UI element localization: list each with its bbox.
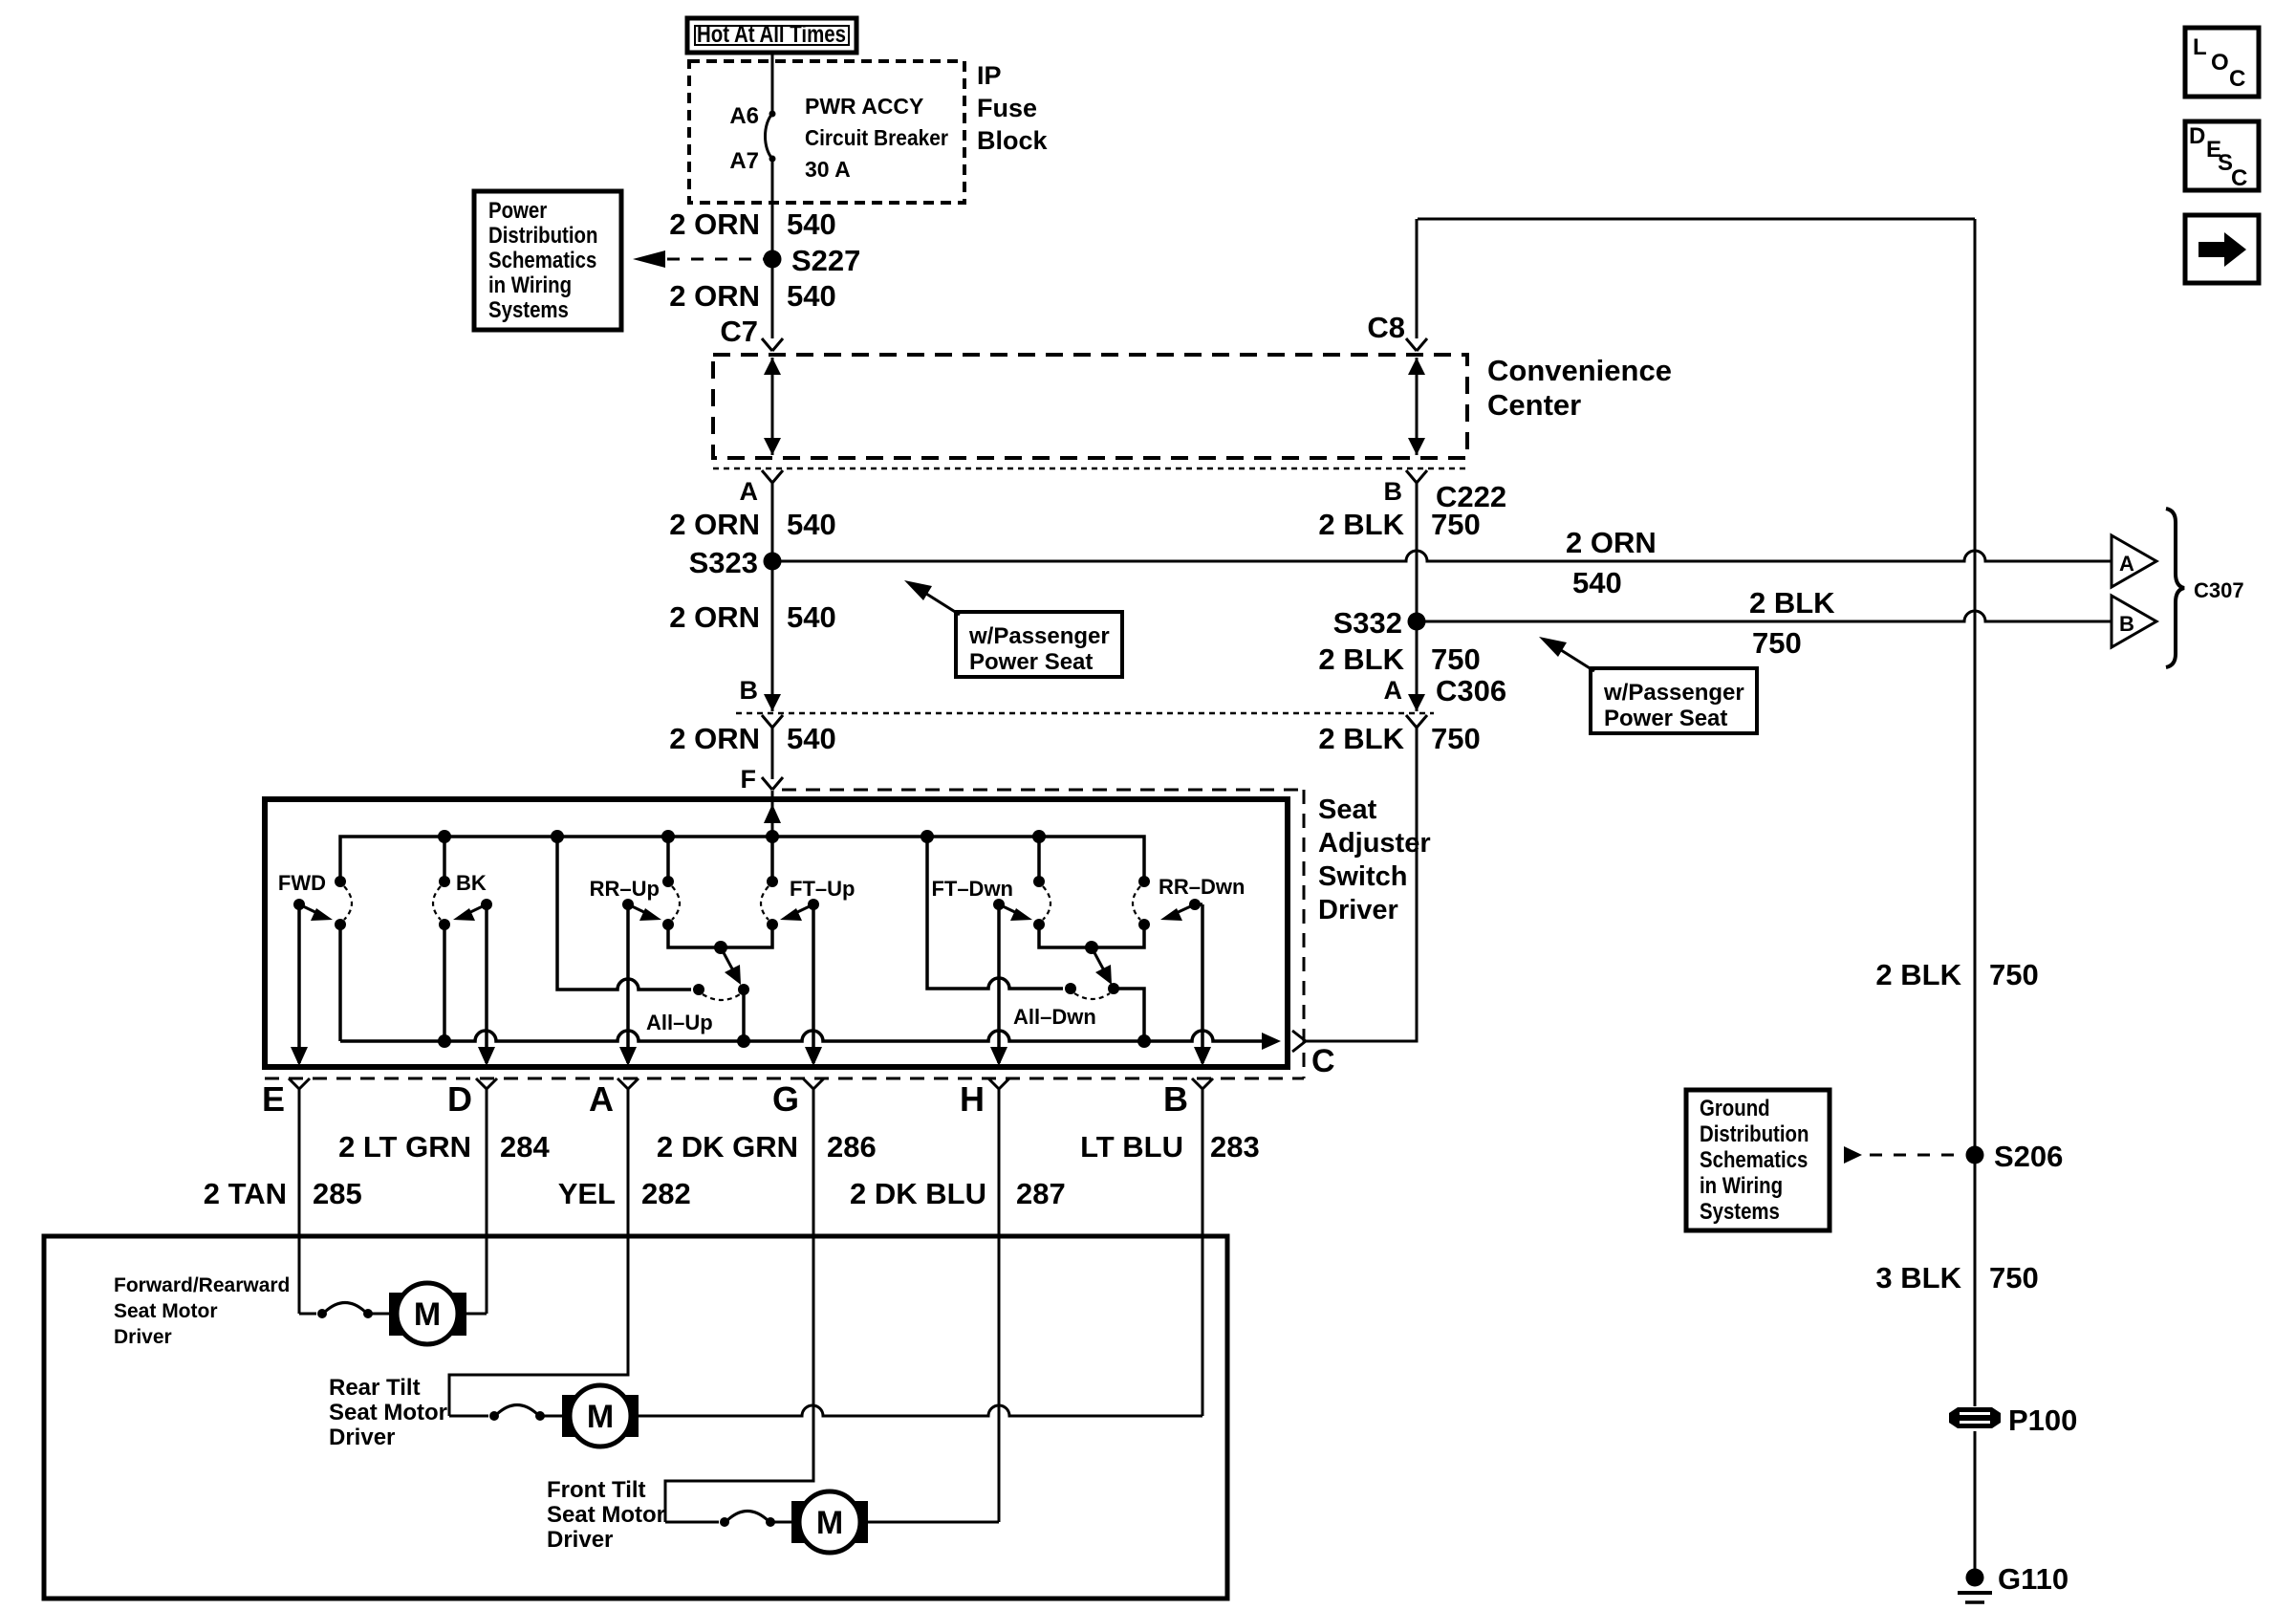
- wire label 2 BLK 750 ground: [1875, 958, 2038, 991]
- svg-text:Hot At All Times: Hot At All Times: [697, 21, 846, 48]
- arrow All-Dwn actuate: [1092, 947, 1112, 985]
- svg-text:D: D: [447, 1079, 472, 1119]
- wire inside Convenience Center right: [1408, 358, 1425, 455]
- svg-text:750: 750: [1989, 1261, 2039, 1295]
- svg-text:M: M: [414, 1296, 441, 1333]
- connector pin E: [262, 1078, 310, 1314]
- svg-text:283: 283: [1210, 1130, 1260, 1164]
- callout w/Passenger Power Seat left: [904, 580, 1122, 677]
- svg-text:Block: Block: [977, 126, 1049, 155]
- svg-text:2 DK GRN: 2 DK GRN: [657, 1130, 798, 1164]
- svg-text:A6: A6: [729, 103, 759, 129]
- svg-text:285: 285: [313, 1177, 362, 1210]
- svg-text:S227: S227: [791, 244, 860, 277]
- svg-text:M: M: [587, 1399, 614, 1435]
- wire link RR-Up FT-Up lower contacts: [668, 925, 772, 954]
- svg-text:FT–Dwn: FT–Dwn: [931, 877, 1013, 901]
- svg-text:Switch: Switch: [1318, 861, 1407, 892]
- pole wire A: [619, 904, 637, 1066]
- svg-text:540: 540: [787, 722, 836, 755]
- svg-text:FWD: FWD: [278, 871, 326, 895]
- svg-text:C307: C307: [2194, 578, 2244, 602]
- ground line vertical: [1974, 219, 1977, 1406]
- wire label 3 BLK 750: [1875, 1261, 2038, 1295]
- svg-text:Power Seat: Power Seat: [969, 649, 1093, 675]
- Rear Tilt Seat Motor Driver label: [329, 1375, 447, 1450]
- Convenience Center label: [1487, 354, 1672, 422]
- label box Power Distribution Schematics in Wiring Systems: [474, 191, 621, 330]
- svg-text:750: 750: [1431, 642, 1481, 676]
- wire inside Convenience Center left: [764, 358, 781, 455]
- svg-text:287: 287: [1016, 1177, 1066, 1210]
- switch RR-Dwn: [1133, 875, 1245, 930]
- splice S332: [1333, 606, 1426, 640]
- stub bus to FT-Up contact: [770, 837, 774, 881]
- svg-text:Systems: Systems: [1700, 1198, 1780, 1224]
- svg-text:540: 540: [787, 600, 836, 634]
- svg-text:w/Passenger: w/Passenger: [968, 623, 1110, 649]
- pole wire B: [1194, 904, 1211, 1066]
- connector C7: [720, 315, 783, 351]
- arrow All-Up actuate: [721, 947, 741, 985]
- connector C306 line: [736, 674, 1506, 728]
- wire top right from C8 to ground line: [1416, 219, 1419, 338]
- wire label 2 DK GRN 286: [657, 1130, 877, 1164]
- svg-text:Driver: Driver: [1318, 895, 1398, 925]
- splice S227: [764, 244, 861, 277]
- svg-text:2 ORN: 2 ORN: [669, 600, 760, 634]
- wire C306 down to switch C pin: [1306, 728, 1417, 1041]
- svg-text:All–Dwn: All–Dwn: [1013, 1005, 1096, 1029]
- icon box LOC: [2185, 28, 2259, 97]
- svg-text:M: M: [816, 1505, 843, 1541]
- svg-text:2 ORN: 2 ORN: [1566, 526, 1657, 559]
- svg-text:284: 284: [500, 1130, 550, 1164]
- connector F pin: [741, 765, 784, 794]
- svg-text:C: C: [2231, 165, 2247, 191]
- bottom bus with hops and C arrow: [340, 1031, 1281, 1050]
- svg-text:Front Tilt: Front Tilt: [547, 1477, 646, 1503]
- svg-text:All–Up: All–Up: [646, 1011, 713, 1034]
- svg-text:Seat Motor: Seat Motor: [114, 1300, 218, 1322]
- Convenience Center dashed box: [713, 355, 1467, 458]
- icon box DESC: [2185, 121, 2259, 191]
- wire label 2 ORN 540: [669, 722, 835, 755]
- svg-text:F: F: [741, 765, 757, 794]
- svg-text:C: C: [2229, 66, 2245, 92]
- svg-text:B: B: [2119, 612, 2134, 636]
- svg-text:Adjuster: Adjuster: [1318, 828, 1431, 859]
- switch BK: [433, 871, 492, 930]
- svg-text:Driver: Driver: [329, 1425, 395, 1450]
- svg-text:2 BLK: 2 BLK: [1318, 722, 1404, 755]
- dashed arrow to Power Distribution: [633, 250, 764, 268]
- wire right C222 to C306: [1416, 483, 1419, 711]
- svg-text:C8: C8: [1367, 311, 1405, 344]
- pole wire H: [990, 904, 1007, 1066]
- wire S332 to C307 B: [1417, 611, 2112, 621]
- IP Fuse Block label: [977, 61, 1049, 155]
- svg-text:D: D: [2189, 123, 2205, 149]
- grommet P100: [1949, 1403, 2077, 1437]
- svg-text:C7: C7: [720, 315, 758, 348]
- svg-text:Forward/Rearward: Forward/Rearward: [114, 1274, 290, 1296]
- top bus: [340, 837, 1144, 881]
- triangle connector C307 A: [2112, 535, 2156, 587]
- svg-text:YEL: YEL: [558, 1177, 616, 1210]
- svg-text:282: 282: [641, 1177, 691, 1210]
- svg-text:Schematics: Schematics: [1700, 1146, 1808, 1172]
- svg-text:Seat: Seat: [1318, 794, 1377, 825]
- svg-text:A: A: [589, 1079, 614, 1119]
- pole wire D: [478, 904, 495, 1066]
- connector C8: [1367, 311, 1427, 351]
- wire label 2 BLK 750 below S332: [1318, 642, 1480, 676]
- svg-text:2 BLK: 2 BLK: [1749, 586, 1835, 620]
- switch assembly dashed border: [265, 790, 1304, 1078]
- svg-text:750: 750: [1431, 722, 1481, 755]
- svg-text:A: A: [740, 477, 759, 506]
- wire left C222 to S323: [771, 483, 774, 711]
- svg-text:P100: P100: [2008, 1403, 2077, 1437]
- wire FWD lower contact to bottom bus: [338, 925, 342, 1041]
- circuit breaker PWR ACCY 30A: [729, 94, 948, 182]
- wire label 2 ORN 540: [669, 207, 835, 241]
- svg-text:Schematics: Schematics: [488, 247, 596, 272]
- stub bus to RR-Up contact: [666, 837, 670, 881]
- svg-text:Power: Power: [488, 197, 548, 223]
- svg-text:Systems: Systems: [488, 296, 569, 322]
- dashed arrow to S206: [1844, 1146, 1965, 1164]
- svg-text:540: 540: [787, 279, 836, 313]
- svg-text:FT–Up: FT–Up: [790, 877, 855, 901]
- wire S323 to C307 A: [772, 551, 2112, 561]
- svg-text:C306: C306: [1436, 674, 1506, 707]
- svg-text:w/Passenger: w/Passenger: [1603, 680, 1744, 706]
- ground G110: [1958, 1562, 2069, 1602]
- switch RR-Up: [590, 876, 680, 930]
- label box Hot At All Times: [687, 18, 856, 53]
- svg-text:Driver: Driver: [547, 1527, 613, 1553]
- svg-text:540: 540: [787, 207, 836, 241]
- svg-text:Convenience: Convenience: [1487, 354, 1672, 387]
- svg-text:S206: S206: [1994, 1140, 2063, 1173]
- motor M2 rear tilt: [449, 1385, 1202, 1447]
- icon box arrow: [2185, 215, 2259, 283]
- wire label 2 ORN 540: [669, 508, 835, 541]
- triangle connector C307 B: [2112, 596, 2156, 647]
- wire label 2 ORN 540 below S323: [669, 600, 835, 634]
- svg-text:BK: BK: [456, 871, 487, 895]
- svg-text:540: 540: [1572, 566, 1622, 599]
- wire label 2 BLK 750 horizontal: [1749, 586, 1835, 660]
- svg-text:A: A: [1384, 676, 1403, 705]
- wire label 2 LT GRN 284: [338, 1130, 550, 1164]
- wire BK lower contact to bottom bus: [438, 925, 451, 1048]
- Seat Adjuster Switch Driver label: [1318, 794, 1431, 925]
- splice S323: [689, 546, 782, 579]
- svg-text:2 LT GRN: 2 LT GRN: [338, 1130, 471, 1164]
- switch box solid border: [265, 799, 1288, 1067]
- brace C307: [2166, 509, 2244, 667]
- motor M1 forward/rearward: [299, 1283, 487, 1344]
- svg-text:LT BLU: LT BLU: [1080, 1130, 1183, 1164]
- wire label YEL 282: [558, 1177, 691, 1210]
- svg-text:2 ORN: 2 ORN: [669, 722, 760, 755]
- svg-text:C: C: [1311, 1043, 1335, 1079]
- svg-text:750: 750: [1989, 958, 2039, 991]
- svg-text:Seat Motor: Seat Motor: [329, 1400, 447, 1425]
- pole wire E: [291, 904, 308, 1066]
- wire label 2 ORN 540: [669, 279, 835, 313]
- svg-text:750: 750: [1431, 508, 1481, 541]
- wire label 2 ORN 540 horizontal: [1566, 526, 1657, 599]
- svg-text:Distribution: Distribution: [488, 222, 597, 248]
- switch FWD: [278, 871, 352, 930]
- label box Ground Distribution Schematics in Wiring Systems: [1686, 1090, 1830, 1230]
- svg-text:S323: S323: [689, 546, 758, 579]
- svg-text:3 BLK: 3 BLK: [1875, 1261, 1961, 1295]
- wire label 2 TAN 285: [204, 1177, 362, 1210]
- svg-text:Power Seat: Power Seat: [1604, 706, 1727, 731]
- svg-text:H: H: [960, 1079, 985, 1119]
- svg-text:Distribution: Distribution: [1700, 1120, 1809, 1146]
- connector pin H: [960, 1078, 1009, 1522]
- svg-text:IP: IP: [977, 61, 1002, 90]
- splice S206: [1966, 1140, 2064, 1173]
- connector C pin: [1292, 1031, 1335, 1079]
- connector pin B: [1163, 1078, 1213, 1416]
- stub bus to BK contact: [443, 837, 446, 881]
- wire link FT-Dwn RR-Dwn lower contacts: [1039, 925, 1144, 954]
- svg-text:Seat Motor: Seat Motor: [547, 1502, 665, 1528]
- svg-text:Driver: Driver: [114, 1326, 172, 1348]
- svg-text:G: G: [772, 1079, 799, 1119]
- motor M3 front tilt: [665, 1491, 999, 1553]
- IP Fuse Block dashed box: [689, 61, 964, 203]
- wire label LT BLU 283: [1080, 1130, 1260, 1164]
- svg-text:G110: G110: [1998, 1562, 2069, 1596]
- Front Tilt Seat Motor Driver label: [547, 1477, 665, 1553]
- switch FT-Up: [761, 876, 855, 930]
- svg-text:750: 750: [1752, 626, 1802, 660]
- svg-text:2 BLK: 2 BLK: [1318, 508, 1404, 541]
- Forward/Rearward Seat Motor Driver label: [114, 1274, 290, 1348]
- connector C222 line: [713, 468, 1506, 513]
- bus junction dots: [438, 830, 1046, 843]
- svg-text:B: B: [1384, 477, 1403, 506]
- switch All-Dwn: [927, 837, 1151, 1048]
- svg-text:Fuse: Fuse: [977, 94, 1037, 122]
- svg-text:RR–Up: RR–Up: [590, 877, 660, 901]
- wire A7 down to C7: [771, 159, 774, 338]
- svg-text:in Wiring: in Wiring: [488, 272, 572, 297]
- wire label 2 DK BLU 287: [850, 1177, 1066, 1210]
- pole wire G: [805, 904, 822, 1066]
- svg-text:Ground: Ground: [1700, 1095, 1770, 1120]
- svg-text:RR–Dwn: RR–Dwn: [1159, 875, 1245, 899]
- svg-text:2 DK BLU: 2 DK BLU: [850, 1177, 986, 1210]
- svg-text:in Wiring: in Wiring: [1700, 1172, 1783, 1198]
- wire label 2 BLK 750: [1318, 722, 1480, 755]
- connector pin A: [449, 1078, 639, 1416]
- svg-text:B: B: [1163, 1079, 1188, 1119]
- svg-text:Rear Tilt: Rear Tilt: [329, 1375, 421, 1401]
- connector pin D: [447, 1078, 497, 1314]
- svg-text:2 ORN: 2 ORN: [669, 508, 760, 541]
- svg-text:PWR ACCY: PWR ACCY: [805, 94, 923, 119]
- connector pin G: [665, 1078, 824, 1522]
- motor assembly box: [44, 1236, 1227, 1599]
- switch FT-Dwn: [931, 876, 1051, 930]
- svg-text:Center: Center: [1487, 388, 1581, 422]
- wire C306 to F: [771, 728, 774, 779]
- svg-text:E: E: [262, 1079, 285, 1119]
- callout w/Passenger Power Seat right: [1539, 637, 1757, 733]
- wire label 2 BLK 750: [1318, 508, 1480, 541]
- svg-text:Circuit Breaker: Circuit Breaker: [805, 125, 948, 150]
- svg-text:2 BLK: 2 BLK: [1318, 642, 1404, 676]
- wire F into box with up arrow: [764, 791, 781, 837]
- svg-text:30 A: 30 A: [805, 157, 851, 182]
- svg-text:540: 540: [787, 508, 836, 541]
- svg-text:A: A: [2119, 552, 2134, 576]
- svg-text:A7: A7: [729, 148, 759, 174]
- svg-text:L: L: [2193, 34, 2207, 60]
- svg-text:2 TAN: 2 TAN: [204, 1177, 287, 1210]
- svg-text:S332: S332: [1333, 606, 1402, 640]
- svg-text:2 BLK: 2 BLK: [1875, 958, 1961, 991]
- svg-text:2 ORN: 2 ORN: [669, 279, 760, 313]
- svg-text:286: 286: [827, 1130, 877, 1164]
- switch All-Up: [557, 837, 750, 1048]
- wire from Hot At All Times to A6: [771, 54, 774, 114]
- svg-text:O: O: [2211, 50, 2229, 76]
- stub bus to FT-Dwn contact: [1037, 837, 1041, 881]
- svg-text:B: B: [740, 676, 759, 705]
- svg-text:2 ORN: 2 ORN: [669, 207, 760, 241]
